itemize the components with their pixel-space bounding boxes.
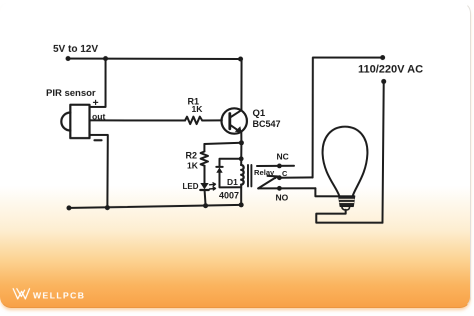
wire out to R1 xyxy=(90,119,186,121)
wire R1 to base xyxy=(202,119,222,121)
wire lamp bottom return xyxy=(316,210,382,223)
svg-text:5V to 12V: 5V to 12V xyxy=(53,44,98,55)
node diode top on coil branch xyxy=(239,156,244,161)
wire collector up to rail xyxy=(240,59,242,110)
svg-text:R2: R2 xyxy=(185,150,197,160)
svg-text:4007: 4007 xyxy=(219,190,239,200)
svg-text:BC547: BC547 xyxy=(253,119,281,129)
node relay NC xyxy=(277,164,282,169)
svg-text:D1: D1 xyxy=(227,177,238,187)
node AC right terminal xyxy=(381,79,386,84)
wire relay C to AC left xyxy=(279,176,312,178)
transistor Q1 collector stroke xyxy=(230,110,241,117)
svg-text:1K: 1K xyxy=(187,160,199,170)
relay core lines xyxy=(248,165,251,186)
wire R2 to LED xyxy=(203,166,205,183)
LED arrows xyxy=(209,183,215,186)
logo W mark xyxy=(13,289,29,299)
transistor Q1 base bar xyxy=(228,113,231,128)
LED cathode bar xyxy=(200,189,208,191)
ground rail xyxy=(69,205,241,208)
svg-text:WELLPCB: WELLPCB xyxy=(33,290,85,300)
wire AC right terminal down xyxy=(382,81,383,222)
diode D1 cathode bar xyxy=(216,166,222,168)
wire coil bottom to ground rail xyxy=(240,185,242,205)
resistor R1 xyxy=(185,117,202,124)
svg-text:+: + xyxy=(93,97,99,109)
svg-text:NC: NC xyxy=(276,151,288,161)
lamp base tip xyxy=(342,206,350,210)
svg-text:PIR sensor: PIR sensor xyxy=(46,88,96,99)
svg-text:LED: LED xyxy=(182,182,198,191)
svg-text:110/220V AC: 110/220V AC xyxy=(358,64,423,76)
relay contact NO line xyxy=(258,187,315,189)
lamp base ridges xyxy=(339,199,354,202)
lamp bulb globe xyxy=(323,127,368,196)
wire AC left terminal xyxy=(313,58,383,178)
node AC left terminal xyxy=(380,55,385,60)
wire emitter junction to R2 branch xyxy=(204,143,241,144)
node collector rail end dot xyxy=(238,57,243,62)
LED indicator triangle xyxy=(200,183,208,189)
node ground left end xyxy=(66,205,71,210)
lamp screw base xyxy=(339,196,355,206)
node ground PIR minus xyxy=(105,205,110,210)
wire PIR minus terminal down xyxy=(89,135,107,208)
wire emitter junction down to relay coil xyxy=(240,143,242,165)
PIR sensor dome xyxy=(61,113,70,131)
svg-text:Q1: Q1 xyxy=(253,108,266,119)
wire emitter down xyxy=(240,133,242,143)
resistor R2 xyxy=(201,151,208,165)
relay contact NC line xyxy=(257,165,294,167)
transistor Q1 emitter stroke xyxy=(230,125,241,133)
wire rail to PIR plus terminal xyxy=(90,59,106,107)
wire LED to ground rail xyxy=(205,190,206,205)
label minus terminal xyxy=(95,139,102,141)
diode D1 triangle xyxy=(216,167,222,172)
wire R2 branch top xyxy=(203,144,205,152)
node junction PIR plus on rail xyxy=(103,56,108,61)
relay armature arrow xyxy=(273,175,278,179)
node ground LED branch xyxy=(203,203,208,208)
transistor Q1 emitter arrow xyxy=(235,126,242,133)
relay armature xyxy=(258,176,277,189)
wire relay NO to lamp base side xyxy=(315,188,338,196)
relay coil K1 xyxy=(241,165,243,185)
wire diode bottom connection xyxy=(219,173,241,188)
PIR sensor body xyxy=(70,105,89,138)
node ground coil branch xyxy=(239,202,244,207)
node relay NO xyxy=(277,186,282,191)
svg-text:1K: 1K xyxy=(192,104,204,114)
node relay C xyxy=(277,175,282,180)
node emitter junction xyxy=(239,140,244,145)
wire diode top connection xyxy=(219,159,241,167)
wire top supply rail xyxy=(68,58,241,60)
svg-text:NO: NO xyxy=(275,193,288,203)
transistor Q1 body xyxy=(222,108,247,133)
node VCC left dot xyxy=(66,56,71,61)
